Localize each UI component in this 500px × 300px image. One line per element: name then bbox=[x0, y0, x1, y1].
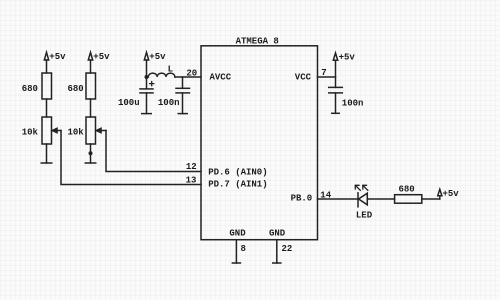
pin number 20 bbox=[186, 68, 197, 78]
potentiometer RV2 10k body bbox=[86, 117, 96, 144]
svg-text:680: 680 bbox=[68, 84, 84, 94]
terminal bar below RV2 bbox=[85, 162, 97, 164]
wire RV1 wiper to pin 13 bbox=[61, 131, 201, 185]
value label 100n (C2) bbox=[158, 98, 180, 108]
value label 680 (R3) bbox=[399, 185, 415, 195]
terminal bar below C1 bbox=[141, 113, 152, 115]
wire C2 bottom bbox=[182, 93, 184, 114]
svg-text:22: 22 bbox=[282, 244, 293, 254]
svg-text:PB.0: PB.0 bbox=[291, 194, 313, 204]
svg-text:10k: 10k bbox=[22, 128, 39, 138]
power +5v symbol (VCC) bbox=[333, 53, 355, 88]
pin label PD.6 (AIN0) inside U1 bbox=[208, 168, 267, 178]
svg-text:+5v: +5v bbox=[149, 52, 166, 62]
wire GND pin 8 bbox=[235, 240, 237, 263]
wire RV1 bottom terminal bbox=[46, 144, 48, 163]
svg-text:L: L bbox=[168, 64, 173, 74]
value label 680 (R2) bbox=[68, 84, 84, 94]
pin label PB.0 inside U1 bbox=[291, 194, 313, 204]
wire R3 to +5v bbox=[422, 198, 440, 200]
value label 10k (RV2) bbox=[68, 128, 85, 138]
terminal bar below C2 bbox=[178, 113, 189, 115]
resistor R1 680 (chain 1) bbox=[42, 73, 52, 99]
svg-text:12: 12 bbox=[186, 162, 197, 172]
pin number 14 bbox=[320, 191, 331, 201]
power +5v symbol (AVCC filter) bbox=[144, 52, 166, 77]
label LED bbox=[356, 211, 373, 221]
wire pin 7 to VCC rail bbox=[318, 76, 336, 78]
potentiometer RV2 wiper arrow bbox=[96, 128, 106, 132]
potentiometer RV1 10k body bbox=[42, 117, 52, 144]
svg-text:AVCC: AVCC bbox=[210, 73, 232, 83]
svg-text:ATMEGA 8: ATMEGA 8 bbox=[236, 36, 279, 46]
wire LED to R3 bbox=[367, 198, 394, 200]
inductor L bbox=[147, 73, 175, 77]
pin label GND (pin 8) inside U1 bbox=[229, 228, 246, 238]
svg-text:10k: 10k bbox=[68, 128, 85, 138]
terminal bar below RV1 bbox=[41, 162, 53, 164]
svg-text:680: 680 bbox=[399, 185, 415, 195]
pin number 12 bbox=[186, 162, 197, 172]
capacitor C2 100n bbox=[176, 77, 190, 93]
IC U1 title label ATMEGA 8 bbox=[236, 36, 279, 46]
wire R2 to RV2 bbox=[90, 99, 92, 117]
pin number 8 bbox=[241, 244, 246, 254]
junction node at AVCC filter bbox=[145, 75, 149, 79]
terminal bar GND pin 22 bbox=[272, 262, 282, 264]
svg-text:+5v: +5v bbox=[93, 52, 110, 62]
wire C3 bottom bbox=[335, 93, 337, 113]
capacitor C1 100u (polarized) bbox=[140, 77, 154, 93]
wire inductor to pin 20 bbox=[175, 76, 201, 78]
power +5v symbol (LED branch) bbox=[438, 189, 460, 199]
terminal bar below C3 bbox=[331, 112, 340, 114]
svg-text:GND: GND bbox=[229, 228, 246, 238]
value label 10k (RV1) bbox=[22, 128, 39, 138]
value label 100n (C3) bbox=[342, 99, 364, 109]
svg-text:VCC: VCC bbox=[295, 73, 312, 83]
value label 680 (R1) bbox=[22, 84, 38, 94]
LED D1 triangle bbox=[359, 193, 368, 205]
pin number 13 bbox=[186, 176, 197, 186]
wire RV2 bottom terminal bbox=[90, 144, 92, 163]
value label L bbox=[168, 64, 173, 74]
wire pin 14 to LED bbox=[318, 198, 359, 200]
svg-text:100n: 100n bbox=[342, 99, 364, 109]
svg-text:+5v: +5v bbox=[339, 53, 356, 63]
value label 100u bbox=[118, 98, 140, 108]
LED D1 emission arrows bbox=[355, 185, 368, 190]
wire GND pin 22 bbox=[276, 240, 278, 263]
svg-text:680: 680 bbox=[22, 84, 38, 94]
wire RV2 wiper to pin 12 bbox=[106, 131, 201, 172]
power +5v symbol (chain 2) bbox=[88, 52, 110, 73]
terminal bar GND pin 8 bbox=[232, 262, 242, 264]
pin label PD.7 (AIN1) inside U1 bbox=[208, 179, 267, 189]
svg-text:PD.6 (AIN0): PD.6 (AIN0) bbox=[208, 168, 267, 178]
resistor R3 680 (LED series) bbox=[395, 195, 422, 204]
IC U1 ATMEGA 8 body bbox=[201, 46, 318, 240]
pin label GND (pin 22) inside U1 bbox=[269, 228, 286, 238]
svg-text:GND: GND bbox=[269, 228, 286, 238]
power +5v symbol (chain 1) bbox=[44, 52, 66, 73]
svg-text:100u: 100u bbox=[118, 98, 140, 108]
resistor R2 680 (chain 2) bbox=[86, 73, 96, 99]
svg-text:LED: LED bbox=[356, 211, 373, 221]
LED D1 cathode bar bbox=[357, 193, 359, 207]
pin label AVCC (inside U1) bbox=[210, 73, 232, 83]
svg-text:+5v: +5v bbox=[49, 52, 66, 62]
svg-text:+5v: +5v bbox=[443, 189, 460, 199]
svg-text:PD.7 (AIN1): PD.7 (AIN1) bbox=[208, 179, 267, 189]
pin label VCC (inside U1) bbox=[295, 73, 312, 83]
pin number 7 bbox=[321, 68, 326, 78]
pin number 22 bbox=[282, 244, 293, 254]
wire C1 bottom bbox=[146, 93, 148, 114]
wire R1 to RV1 bbox=[46, 99, 48, 117]
svg-text:8: 8 bbox=[241, 244, 246, 254]
svg-text:100n: 100n bbox=[158, 98, 180, 108]
junction dot below RV2 bbox=[89, 151, 93, 155]
capacitor C3 100n (VCC decoupling) bbox=[329, 87, 343, 93]
potentiometer RV1 wiper arrow bbox=[52, 128, 61, 132]
